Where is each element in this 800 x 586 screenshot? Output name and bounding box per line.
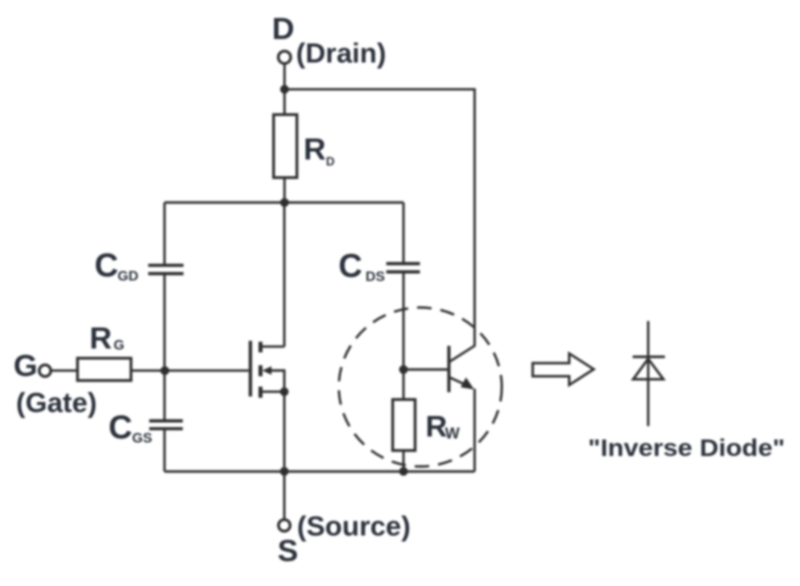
mosfet drain connection [262, 203, 284, 347]
wire mosfet source to rail [283, 392, 285, 472]
node internal drain [280, 198, 289, 207]
resistor RG [78, 358, 132, 380]
svg-text:W: W [445, 426, 460, 443]
svg-text:GD: GD [118, 268, 139, 284]
wire D terminal to drain node [283, 64, 285, 115]
svg-text:C: C [95, 247, 119, 284]
diode triangle [633, 359, 663, 379]
svg-text:C: C [109, 409, 133, 446]
mosfet body connection [268, 371, 284, 392]
diode vertical lead [647, 321, 649, 426]
resistor RW [393, 400, 415, 451]
wire RW to source rail [402, 451, 404, 472]
transistor emitter arrow [461, 377, 475, 389]
block arrow [533, 354, 594, 386]
diode cathode bar [633, 355, 665, 358]
svg-text:G: G [14, 348, 38, 383]
wire CGS to source rail [163, 429, 165, 472]
mosfet gate bar [249, 341, 252, 397]
svg-text:S: S [278, 533, 299, 568]
wire internal drain rail [165, 201, 404, 203]
dashed circle parasitic region [339, 308, 502, 467]
svg-text:(Source): (Source) [297, 511, 411, 542]
wire emitter to source rail [473, 389, 475, 472]
resistor RD [274, 115, 297, 178]
terminal D [278, 51, 290, 63]
svg-text:DS: DS [366, 268, 385, 284]
node gate junction [160, 366, 169, 375]
node base junction [399, 365, 408, 374]
svg-text:D: D [272, 11, 294, 46]
svg-text:R: R [90, 321, 112, 356]
wire base node to BJT base [404, 368, 448, 370]
node source rail left [280, 467, 289, 476]
wire CDS to base node [402, 272, 404, 400]
wire RG to MOSFET gate [131, 369, 249, 371]
wire G terminal to RG [51, 369, 78, 371]
transistor collector line [450, 345, 476, 361]
transistor emitter line [450, 377, 469, 385]
capacitor CGS [149, 421, 183, 429]
svg-text:"Inverse Diode": "Inverse Diode" [588, 435, 785, 462]
mosfet channel segments [259, 342, 263, 398]
wire source rail [165, 470, 475, 472]
wire RD to internal drain node [283, 178, 285, 203]
wire left branch to CGD [163, 203, 165, 266]
svg-text:G: G [114, 337, 125, 353]
svg-text:D: D [326, 155, 335, 169]
capacitor CGD [148, 265, 183, 273]
node drain junction [280, 85, 289, 94]
mosfet body arrow [262, 366, 271, 374]
mosfet source connection [262, 391, 284, 393]
transistor base bar [447, 346, 450, 392]
svg-text:GS: GS [132, 430, 152, 446]
terminal S [279, 520, 291, 532]
svg-text:(Drain): (Drain) [296, 38, 386, 69]
node source rail right [399, 467, 408, 476]
svg-text:C: C [339, 247, 363, 284]
wire drain node to BJT collector [285, 89, 475, 345]
terminal G [39, 365, 51, 377]
wire CGD to gate node [163, 274, 165, 421]
node mosfet source [280, 387, 289, 396]
wire rail to S terminal [283, 472, 285, 520]
wire right branch to CDS [402, 203, 404, 264]
svg-text:(Gate): (Gate) [16, 387, 97, 418]
svg-text:R: R [304, 132, 326, 167]
capacitor CDS [386, 264, 420, 272]
